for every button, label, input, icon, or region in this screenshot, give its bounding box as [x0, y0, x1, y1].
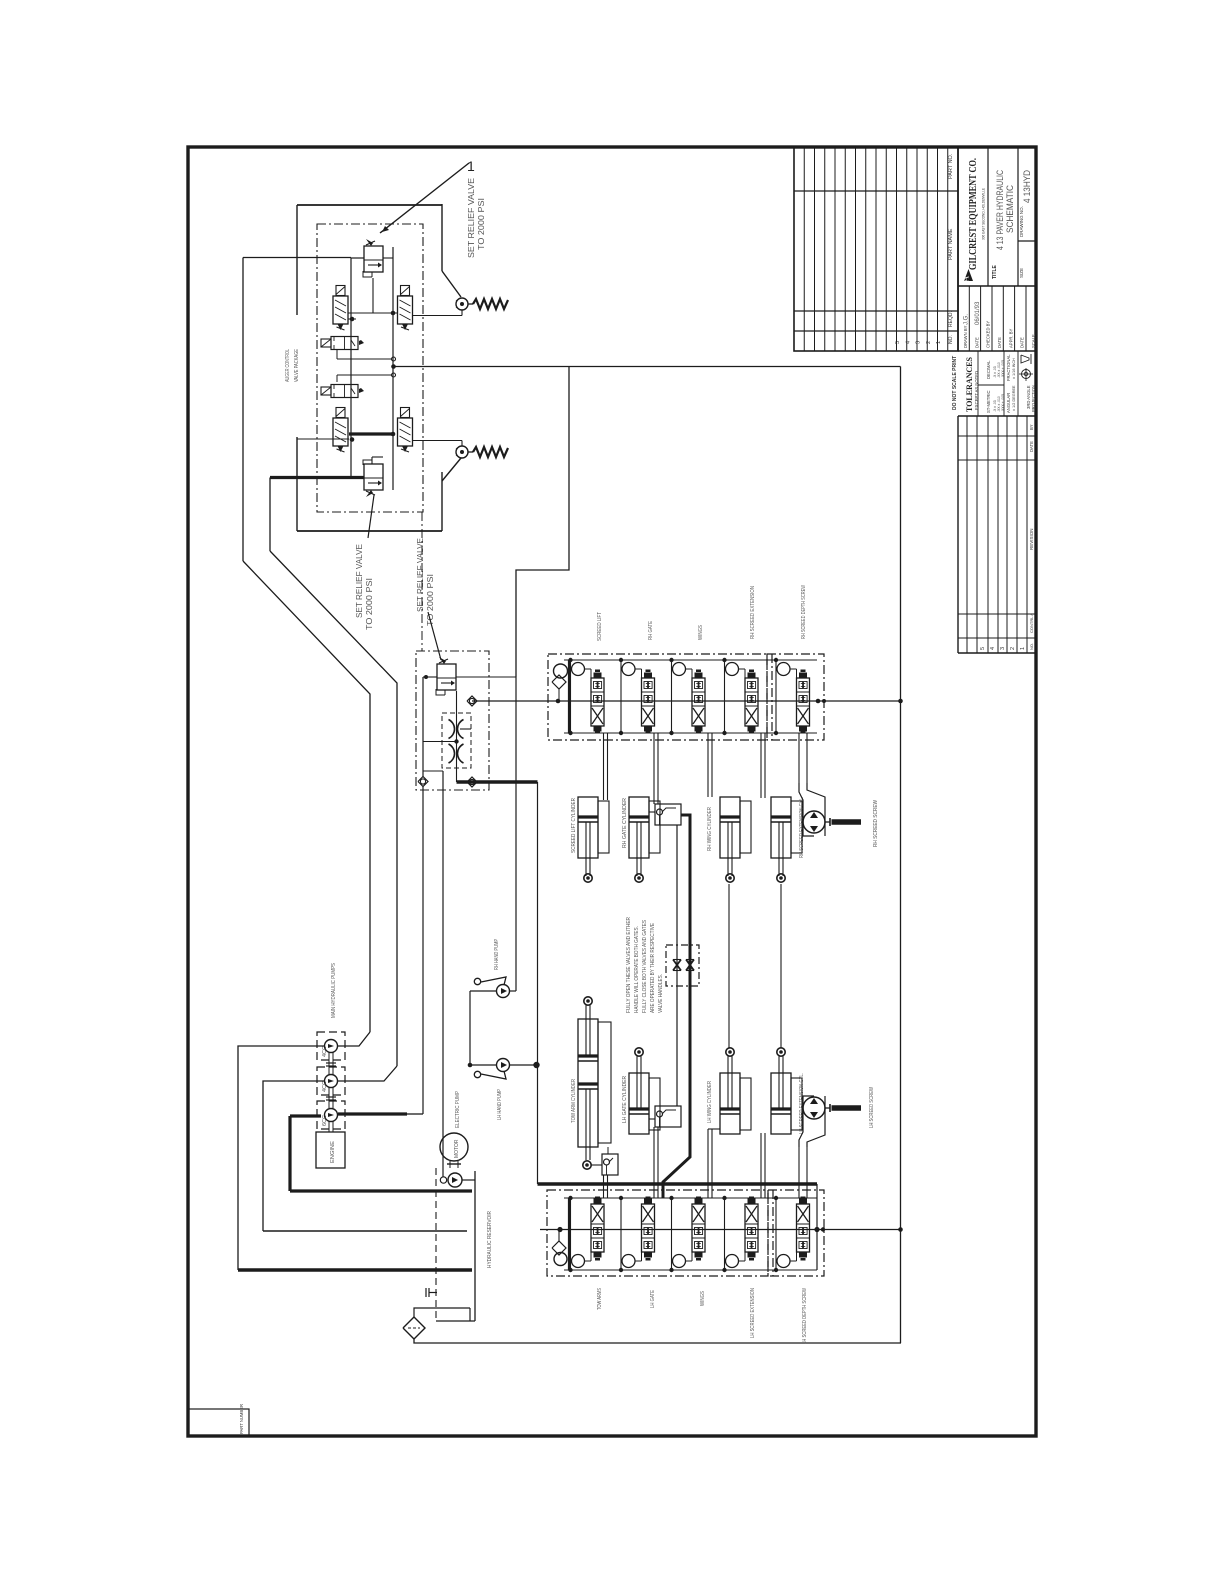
svg-text:DO NOT SCALE PRINT: DO NOT SCALE PRINT	[952, 356, 958, 410]
svg-text:SCREED LIFT: SCREED LIFT	[597, 612, 603, 641]
svg-text:LH GATE CYLINDER: LH GATE CYLINDER	[622, 1076, 628, 1123]
svg-text:1: 1	[1020, 647, 1026, 650]
svg-text:DECIMAL: DECIMAL	[986, 360, 991, 379]
svg-text:CHECKED BY: CHECKED BY	[986, 321, 991, 348]
svg-text:TO 2000 PSI: TO 2000 PSI	[365, 578, 374, 630]
svg-text:4 13HYD: 4 13HYD	[1022, 170, 1032, 203]
svg-text:FULLY CLOSE BOTH VALVES AND GA: FULLY CLOSE BOTH VALVES AND GATES	[642, 920, 648, 1013]
svg-text:PART NO.: PART NO.	[948, 153, 954, 179]
svg-text:PROJECTION: PROJECTION	[1031, 385, 1036, 412]
svg-text:WINGS: WINGS	[700, 1291, 706, 1306]
svg-text:1: 1	[467, 158, 475, 174]
svg-text:HANDLE WILL OPERATE BOTH GATES: HANDLE WILL OPERATE BOTH GATES.	[634, 926, 640, 1013]
svg-text:LH SCREED DEPTH SCREW: LH SCREED DEPTH SCREW	[802, 1288, 808, 1344]
svg-text:DATE: DATE	[1029, 441, 1034, 452]
svg-text:3: 3	[916, 341, 922, 344]
svg-text:5: 5	[980, 647, 986, 650]
svg-text:MAIN HYDRAULIC PUMPS: MAIN HYDRAULIC PUMPS	[331, 963, 337, 1018]
svg-text:MOTOR: MOTOR	[454, 1139, 460, 1158]
svg-text:ELECTRIC PUMP: ELECTRIC PUMP	[455, 1091, 461, 1128]
svg-text:NO.: NO.	[1029, 643, 1034, 650]
svg-text:NO.: NO.	[948, 335, 954, 344]
svg-text:HYDRAULIC RESERVOIR: HYDRAULIC RESERVOIR	[487, 1211, 493, 1268]
svg-text:06/01/93: 06/01/93	[975, 301, 981, 325]
svg-text:RH GATE: RH GATE	[648, 621, 654, 640]
svg-text:4CC: 4CC	[322, 1081, 328, 1092]
svg-text:4 13 PAVER HYDRAULIC: 4 13 PAVER HYDRAULIC	[995, 170, 1005, 250]
svg-text:LH WING CYLINDER: LH WING CYLINDER	[707, 1081, 713, 1123]
svg-text:± 1/16 INCH: ± 1/16 INCH	[1012, 358, 1016, 379]
svg-text:LH SCREED EXTENSION: LH SCREED EXTENSION	[750, 1288, 756, 1338]
svg-text:4: 4	[990, 647, 996, 650]
svg-text:PART NAME: PART NAME	[948, 228, 954, 260]
svg-text:TOLERANCES: TOLERANCES	[965, 356, 974, 412]
svg-text:306 EAST SECOND, HOLDENVILLE: 306 EAST SECOND, HOLDENVILLE	[982, 188, 986, 240]
svg-text:.XXX ± .005: .XXX ± .005	[1001, 394, 1005, 412]
svg-text:DATE: DATE	[974, 337, 979, 348]
svg-text:LH HAND PUMP: LH HAND PUMP	[497, 1089, 503, 1120]
svg-text:RH GATE CYLINDER: RH GATE CYLINDER	[622, 798, 628, 848]
svg-text:ANGULAR: ANGULAR	[1006, 393, 1011, 413]
svg-text:± 1/2 DEGREE: ± 1/2 DEGREE	[1012, 385, 1016, 411]
svg-text:PART NUMBER: PART NUMBER	[239, 1404, 244, 1434]
svg-text:A: A	[961, 275, 971, 282]
svg-text:SCREED LIFT CYLINDER: SCREED LIFT CYLINDER	[571, 798, 577, 853]
svg-text:ARE OPERATED BY THEIR RESPECTI: ARE OPERATED BY THEIR RESPECTIVE	[650, 923, 656, 1013]
svg-text:CONTRL #: CONTRL #	[1029, 613, 1034, 633]
svg-text:VALVE PACKAGE: VALVE PACKAGE	[294, 349, 300, 382]
svg-text:SET RELIEF VALVE: SET RELIEF VALVE	[467, 178, 476, 258]
svg-text:DRAWN BY: DRAWN BY	[963, 325, 968, 348]
svg-text:TO 2000 PSI: TO 2000 PSI	[426, 574, 435, 626]
svg-text:SET RELIEF VALVE: SET RELIEF VALVE	[416, 538, 425, 612]
svg-text:6CC: 6CC	[322, 1115, 328, 1126]
svg-text:GILCREST EQUIPMENT CO.: GILCREST EQUIPMENT CO.	[968, 158, 979, 270]
svg-text:RH WING CYLINDER: RH WING CYLINDER	[707, 807, 713, 851]
svg-text:5: 5	[895, 341, 901, 344]
svg-text:RH SCREED DEPTH SCREW: RH SCREED DEPTH SCREW	[801, 585, 807, 639]
svg-text:TOW ARMS: TOW ARMS	[597, 1288, 603, 1310]
svg-text:FRACTIONAL: FRACTIONAL	[1006, 354, 1011, 381]
svg-text:REQD.: REQD.	[948, 311, 954, 327]
svg-text:4: 4	[905, 341, 911, 344]
svg-text:DRAWING NO.: DRAWING NO.	[1019, 206, 1024, 237]
svg-text:1: 1	[936, 341, 942, 344]
svg-text:.XXX ± .005: .XXX ± .005	[1001, 360, 1005, 378]
svg-text:2: 2	[926, 341, 932, 344]
svg-text:DATE: DATE	[997, 337, 1002, 348]
svg-text:RH SCREED EXTENSION: RH SCREED EXTENSION	[750, 586, 756, 639]
svg-text:WINGS: WINGS	[698, 625, 704, 640]
svg-text:BY: BY	[1029, 424, 1034, 430]
svg-text:RH HAND PUMP: RH HAND PUMP	[494, 939, 500, 970]
svg-text:3: 3	[1000, 647, 1006, 650]
svg-text:TITLE: TITLE	[992, 264, 998, 279]
svg-text:ST-METRIC: ST-METRIC	[986, 390, 991, 413]
svg-text:ENGINE: ENGINE	[330, 1141, 336, 1163]
svg-text:SCALE: SCALE	[1031, 334, 1036, 348]
svg-text:FULLY OPEN THESE VALVES AND EI: FULLY OPEN THESE VALVES AND EITHER	[626, 917, 632, 1013]
svg-text:4CC: 4CC	[322, 1046, 328, 1057]
svg-text:2: 2	[1010, 647, 1016, 650]
svg-text:REVISION: REVISION	[1029, 528, 1034, 550]
svg-text:SCHEMATIC: SCHEMATIC	[1005, 185, 1015, 233]
svg-text:SIZE: SIZE	[1019, 268, 1024, 278]
svg-text:AUGER CONTROL: AUGER CONTROL	[285, 349, 291, 382]
svg-text:SET RELIEF VALVE: SET RELIEF VALVE	[355, 544, 364, 618]
svg-text:VALVE HANDLES.: VALVE HANDLES.	[658, 974, 664, 1013]
svg-text:APPR. BY: APPR. BY	[1008, 328, 1013, 348]
svg-text:RH SCREED SCREW: RH SCREED SCREW	[873, 800, 879, 847]
svg-text:TOW ARM CYLINDER: TOW ARM CYLINDER	[571, 1079, 577, 1123]
svg-text:J.G.: J.G.	[964, 314, 970, 325]
svg-text:LH GATE: LH GATE	[650, 1290, 656, 1308]
svg-text:DATE: DATE	[1020, 337, 1025, 348]
svg-text:LH SCREED SCREW: LH SCREED SCREW	[869, 1087, 875, 1128]
svg-text:TO 2000 PSI: TO 2000 PSI	[477, 198, 486, 250]
